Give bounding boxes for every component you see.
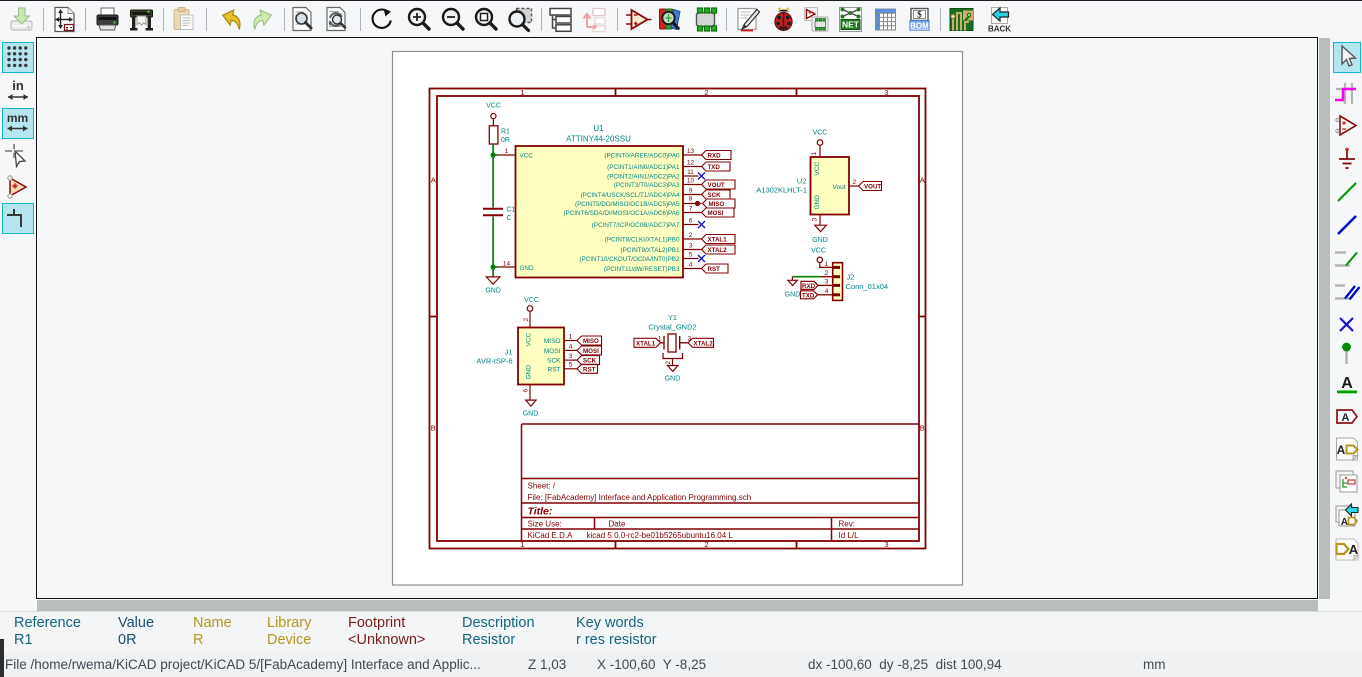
svg-text:BOM: BOM	[910, 22, 929, 31]
svg-text:$: $	[917, 10, 922, 20]
svg-text:A: A	[1341, 375, 1353, 392]
svg-text:A: A	[1342, 412, 1350, 424]
svg-text:mm: mm	[7, 111, 28, 125]
svg-text:A: A	[1341, 517, 1348, 528]
svg-text:A: A	[1349, 542, 1359, 557]
svg-text:in: in	[12, 78, 24, 93]
svg-text:BACK: BACK	[988, 25, 1011, 34]
svg-text:A: A	[1337, 443, 1346, 457]
svg-text:NET: NET	[842, 20, 860, 30]
